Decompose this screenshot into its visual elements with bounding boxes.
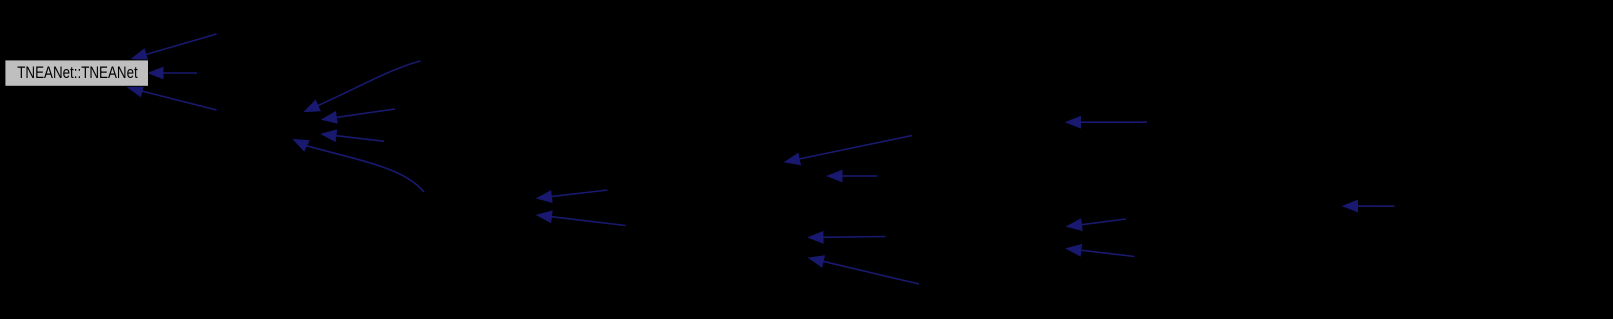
edge caller4 -> node B [305,61,421,112]
edge caller9 -> node C [537,211,626,226]
edge caller3 -> TNEANet::TNEANet [128,86,217,111]
edge caller16 -> node G [1067,245,1135,257]
node TNEANet::TNEANet (current function, highlighted) [5,60,149,86]
edge caller8 -> node C [537,190,608,202]
edge caller11 -> node D [828,170,878,181]
edge caller14 -> node F [1066,117,1147,128]
edge caller2 -> TNEANet::TNEANet [149,67,198,78]
edge caller6 -> node B [322,130,385,141]
edge caller7 -> node B [294,140,425,193]
edge caller13 -> node E [809,256,919,284]
edge caller17 -> node H [1343,200,1395,211]
svg-text:TNEANet::TNEANet: TNEANet::TNEANet [17,64,138,82]
edge caller15 -> node G [1067,219,1126,230]
edge caller10 -> node D [785,136,912,165]
edge caller1 -> TNEANet::TNEANet [132,34,217,60]
edge caller12 -> node E [809,232,886,243]
edge caller5 -> node B [322,109,395,123]
